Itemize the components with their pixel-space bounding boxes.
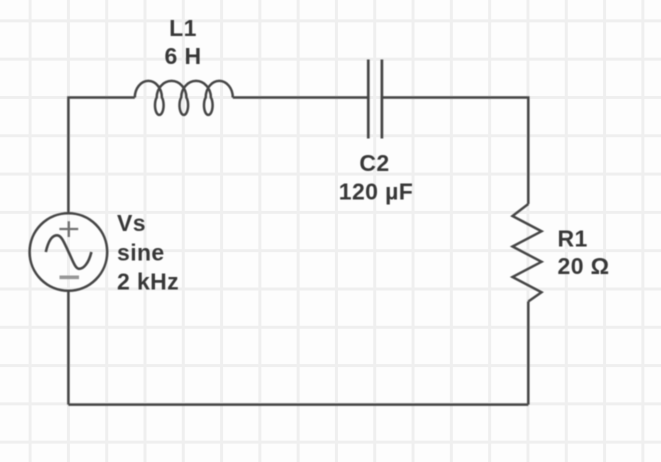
- wire: source top to top-left corner to inductor: [68, 98, 134, 214]
- capacitor C2 plates: [368, 60, 382, 139]
- wire: inductor to capacitor left plate: [233, 96, 368, 99]
- svg-text:sine: sine: [117, 240, 165, 266]
- voltage source Vs circle: [30, 213, 108, 291]
- wire: bottom-left corner up to source bottom: [67, 291, 70, 405]
- minus terminal mark: [60, 275, 80, 279]
- svg-text:R1: R1: [558, 225, 588, 251]
- svg-text:20 Ω: 20 Ω: [558, 253, 610, 279]
- svg-text:Vs: Vs: [117, 210, 146, 236]
- inductor L1 coil: [135, 81, 233, 115]
- svg-text:120 µF: 120 µF: [339, 179, 413, 205]
- svg-text:6 H: 6 H: [165, 43, 202, 69]
- resistor R1 zigzag: [513, 204, 542, 302]
- svg-text:C2: C2: [359, 150, 389, 176]
- svg-text:2 kHz: 2 kHz: [117, 269, 179, 295]
- plus terminal mark: [59, 221, 78, 237]
- svg-text:L1: L1: [169, 15, 197, 41]
- wire: bottom rail: [68, 403, 528, 406]
- voltage source sine symbol: [46, 235, 92, 268]
- wire: capacitor right plate to top-right corner to resistor: [382, 98, 528, 205]
- wire: resistor to bottom-right corner: [527, 302, 530, 405]
